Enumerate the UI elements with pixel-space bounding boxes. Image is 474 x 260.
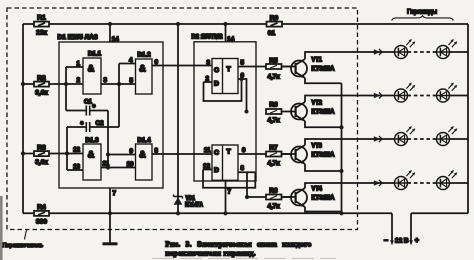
power plus lead xyxy=(409,213,413,245)
caption line 2 xyxy=(166,249,257,257)
svg-text:D1.3: D1.3 xyxy=(85,137,99,144)
LED HL1 row 1 xyxy=(395,39,416,59)
svg-text:3: 3 xyxy=(104,77,108,84)
svg-text:R8: R8 xyxy=(269,187,278,194)
transistor VT3 xyxy=(282,145,308,164)
svg-text:4,7к: 4,7к xyxy=(267,73,280,80)
svg-text:D1.1: D1.1 xyxy=(88,51,102,58)
svg-text:КС147А: КС147А xyxy=(185,203,204,209)
wire row 2 to +bus xyxy=(450,95,469,97)
svg-text:VD1: VD1 xyxy=(186,196,196,202)
label VT4 xyxy=(312,186,323,193)
value 3,6к xyxy=(35,159,48,166)
wire pin8 to R8 xyxy=(247,172,291,197)
label plus xyxy=(415,238,419,245)
wire VT1 collector to garland row 1 xyxy=(305,52,395,59)
junction bus-VT2 emitter xyxy=(340,125,344,129)
svg-text:8: 8 xyxy=(155,148,159,155)
value КТ315А VT4 xyxy=(312,195,335,202)
pin 12 wire xyxy=(73,147,80,154)
wire VT4 emitter to common bus xyxy=(305,207,342,212)
wire dashed row 4 xyxy=(408,182,437,184)
junction bus-pin14 D1 xyxy=(108,22,112,26)
wire row 3 to +bus xyxy=(450,138,469,140)
junction rail-VD1 xyxy=(176,211,180,215)
label R6 xyxy=(269,102,278,109)
junction bus-pin14 D2 xyxy=(223,22,227,26)
capacitor C1 xyxy=(66,106,108,116)
connector plug row 4 xyxy=(374,180,382,186)
wire VT3 emitter to common bus xyxy=(305,164,342,171)
junction pin3 node xyxy=(117,82,121,86)
label R7 xyxy=(269,144,278,151)
svg-text:13к: 13к xyxy=(36,30,47,37)
junction pin2 node xyxy=(64,77,81,86)
svg-text:14: 14 xyxy=(112,36,119,43)
label D1.4 xyxy=(137,137,151,144)
pin 14 of D1 xyxy=(110,24,119,43)
resistor R3 xyxy=(34,151,49,156)
svg-text:R9: R9 xyxy=(270,15,279,22)
wire feedback Q1 to D1 xyxy=(204,79,242,101)
svg-text:КТ315А: КТ315А xyxy=(312,195,335,202)
svg-text:4,7к: 4,7к xyxy=(267,203,280,210)
label D1.1 xyxy=(88,51,102,58)
zener diode VD1 xyxy=(174,24,183,213)
wire row 1 to +bus xyxy=(450,51,469,53)
value 4,7к xyxy=(267,73,280,80)
pin 11 output wire xyxy=(101,161,136,168)
junction R8 corner xyxy=(245,195,249,199)
svg-text:&: & xyxy=(139,64,146,75)
svg-text:4: 4 xyxy=(129,57,133,64)
svg-text:12: 12 xyxy=(203,163,210,170)
svg-text:переключателя гирлянд.: переключателя гирлянд. xyxy=(166,249,257,257)
svg-text:Гирлянды: Гирлянды xyxy=(407,9,437,16)
LED HL2 row 1 xyxy=(437,39,458,59)
svg-text:D1 К155 ЛА3: D1 К155 ЛА3 xyxy=(58,34,99,41)
label D1 К155 ЛА3 xyxy=(58,34,99,41)
svg-text:&: & xyxy=(88,150,95,161)
label R4 xyxy=(37,204,46,211)
wire dashed row 2 xyxy=(408,95,437,97)
resistor R9 xyxy=(267,22,283,27)
wire right +12V bus xyxy=(467,24,469,213)
wire emitter common bus xyxy=(341,83,343,213)
pin 13 wire xyxy=(67,164,83,171)
connector plug row 1 xyxy=(374,49,382,55)
flip-flop D2.1 xyxy=(212,59,238,94)
LED HL4 row 2 xyxy=(437,83,458,103)
svg-text:C2: C2 xyxy=(96,120,104,127)
resistor R5 xyxy=(266,64,282,69)
junction pin6 feedback xyxy=(240,77,244,81)
LED HL3 row 2 xyxy=(395,83,416,103)
pin 9 output wire xyxy=(238,147,291,154)
wire VT1 emitter to common bus xyxy=(305,78,342,83)
wire ground rail xyxy=(23,212,468,214)
pin 5 output wire xyxy=(238,60,291,67)
wire left rail to resistors xyxy=(22,24,24,213)
svg-text:R1: R1 xyxy=(37,15,46,22)
ground xyxy=(103,242,118,245)
svg-text:+: + xyxy=(415,238,419,245)
svg-text:C: C xyxy=(214,67,219,74)
IC D2 box xyxy=(194,42,256,181)
junction rail-R3 xyxy=(21,151,25,155)
wire C2 left to D1.3 inputs xyxy=(66,127,68,170)
svg-text:T: T xyxy=(227,149,232,156)
wire R3 to gate inputs xyxy=(23,153,83,155)
value КТ315А VT1 xyxy=(312,66,335,73)
svg-text:C: C xyxy=(214,150,219,157)
svg-text:Переключатель: Переключатель xyxy=(3,243,44,249)
pin 10 label xyxy=(127,161,134,168)
wire VT2 emitter to common bus xyxy=(305,121,342,127)
svg-text:VT4: VT4 xyxy=(312,186,323,193)
value 4,7к xyxy=(267,203,280,210)
pin 11 label xyxy=(204,147,211,154)
label minus xyxy=(384,238,388,245)
pin 3 output wire xyxy=(101,77,119,84)
LED HL7 row 4 xyxy=(395,170,416,190)
label R2 xyxy=(37,75,46,82)
value 91 xyxy=(268,30,276,37)
LED HL8 row 4 xyxy=(437,170,458,190)
gate D1.3 xyxy=(83,144,101,180)
label D1.3 xyxy=(85,137,99,144)
svg-text:&: & xyxy=(88,64,95,75)
svg-text:R4: R4 xyxy=(37,204,46,211)
junction R3-pins12-13 xyxy=(65,151,69,155)
pin 14 of D2 xyxy=(226,24,235,43)
pin 6 output wire xyxy=(238,73,247,112)
svg-text:КТ315А: КТ315А xyxy=(312,152,335,159)
svg-text:4,7к: 4,7к xyxy=(267,117,280,124)
svg-text:6: 6 xyxy=(155,59,159,66)
label VT1 xyxy=(312,57,323,64)
svg-text:T: T xyxy=(227,66,232,73)
svg-text:2: 2 xyxy=(77,77,81,84)
svg-text:VT1: VT1 xyxy=(312,57,323,64)
svg-text:14: 14 xyxy=(227,36,234,43)
capacitor C2 xyxy=(67,122,119,132)
svg-text:5: 5 xyxy=(130,78,134,85)
value КТ315А VT3 xyxy=(312,152,335,159)
value КС147А xyxy=(185,203,204,209)
svg-text:VT3: VT3 xyxy=(312,143,323,150)
junction pin9 tie xyxy=(106,152,110,156)
wire feedback Q2 to D2 xyxy=(203,170,255,188)
svg-text:11: 11 xyxy=(204,147,211,154)
svg-text:D2 155ТМ2: D2 155ТМ2 xyxy=(192,34,223,41)
power minus lead xyxy=(390,213,394,245)
label D1.2 xyxy=(137,52,151,59)
LED HL6 row 3 xyxy=(437,126,458,146)
svg-text:1: 1 xyxy=(77,61,81,68)
wire VT2 collector to garland row 2 xyxy=(305,96,395,103)
connector plug row 3 xyxy=(374,136,382,142)
wire R2 to gate inputs xyxy=(23,83,83,85)
flip-flop D2.2 xyxy=(212,145,238,180)
junction R6 corner xyxy=(245,110,249,114)
label Переключатель xyxy=(3,243,44,249)
svg-text:330: 330 xyxy=(36,219,47,226)
svg-text:&: & xyxy=(139,150,146,161)
resistor R1 xyxy=(34,22,49,27)
svg-text:КТ315А: КТ315А xyxy=(312,66,335,73)
resistor R7 xyxy=(266,152,282,157)
junction bus-ground rail xyxy=(339,211,343,215)
pin 9 wire xyxy=(108,148,136,155)
dashed enclosure border (switch unit) xyxy=(7,8,358,230)
pin 6 output wire to D2 xyxy=(152,59,212,66)
wire dashed row 1 xyxy=(408,51,437,53)
svg-text:D1.4: D1.4 xyxy=(137,137,151,144)
scan smudge left edge xyxy=(0,196,3,260)
svg-text:7: 7 xyxy=(228,189,232,196)
svg-text:7: 7 xyxy=(113,190,117,197)
value 4,7к xyxy=(267,160,280,167)
svg-text:–: – xyxy=(384,238,388,245)
svg-text:3,6к: 3,6к xyxy=(35,90,48,97)
svg-text:10: 10 xyxy=(127,161,134,168)
svg-text:R6: R6 xyxy=(269,102,278,109)
pin 1 wire xyxy=(66,61,83,68)
svg-text:5: 5 xyxy=(241,60,245,67)
svg-text:C1: C1 xyxy=(84,99,92,106)
svg-text:91: 91 xyxy=(268,30,276,37)
svg-text:D: D xyxy=(214,81,219,88)
label 12 В xyxy=(395,238,409,245)
value 3,6к xyxy=(35,90,48,97)
svg-text:13: 13 xyxy=(73,164,80,171)
label R8 xyxy=(269,187,278,194)
label R3 xyxy=(37,145,46,152)
wire dashed row 3 xyxy=(408,138,437,140)
svg-text:2: 2 xyxy=(206,76,210,83)
value 330 xyxy=(36,219,47,226)
label R5 xyxy=(269,57,278,64)
label C1 xyxy=(84,99,95,112)
value КТ315А VT2 xyxy=(312,109,335,116)
label VT2 xyxy=(312,100,323,107)
wire row 4 to +bus xyxy=(450,182,469,184)
junction rail-pin7 D1 xyxy=(108,211,112,215)
label VD1 xyxy=(186,196,196,202)
pin 7 of D2 xyxy=(226,181,232,213)
resistor R6 xyxy=(266,109,282,114)
IC D1 box xyxy=(59,42,163,188)
resistor R4 xyxy=(34,211,49,216)
svg-text:12: 12 xyxy=(73,147,80,154)
label R1 xyxy=(37,15,46,22)
svg-text:3,6к: 3,6к xyxy=(35,159,48,166)
svg-text:9: 9 xyxy=(242,147,246,154)
resistor R2 xyxy=(34,82,49,87)
pin 8 output wire xyxy=(238,165,255,172)
label VT3 xyxy=(312,143,323,150)
node pins 1-2 tie xyxy=(65,67,67,111)
resistor R8 xyxy=(266,195,282,200)
svg-text:VT2: VT2 xyxy=(312,100,323,107)
junction rail-pin7 D2 xyxy=(223,211,227,215)
junction rail-R2 xyxy=(21,82,25,86)
svg-text:R7: R7 xyxy=(269,144,278,151)
transistor VT2 xyxy=(282,102,308,121)
svg-text:R5: R5 xyxy=(269,57,278,64)
value 4,7к xyxy=(267,117,280,124)
svg-text:3: 3 xyxy=(207,60,211,67)
svg-text:Рис. 3. Электрическая схема: Рис. 3. Электрическая схема каждого xyxy=(166,240,312,248)
pin 2 wire D input xyxy=(204,76,213,83)
wire top supply bus xyxy=(23,23,468,25)
svg-text:12 В: 12 В xyxy=(395,238,409,245)
pin 3 label xyxy=(207,60,211,67)
junction C1-pin11 xyxy=(106,165,110,169)
wire VT3 collector to garland row 3 xyxy=(305,139,395,145)
svg-text:R3: R3 xyxy=(37,145,46,152)
svg-text:КТ315А: КТ315А xyxy=(312,109,335,116)
pin 5 wire xyxy=(119,78,136,85)
transistor VT4 xyxy=(282,188,308,207)
wire C1 right to D1.4 inputs xyxy=(107,111,109,168)
gate D1.2 xyxy=(136,59,153,94)
node pins 4-5 tie xyxy=(118,64,120,128)
junction bus-VD1 xyxy=(176,22,180,26)
caption line 1 xyxy=(166,240,312,248)
scan smudge bottom xyxy=(152,257,336,259)
pin 8 output wire to D2 xyxy=(152,148,212,155)
label C2 xyxy=(81,120,104,129)
pin 4 wire xyxy=(119,57,136,64)
value 13к xyxy=(36,30,47,37)
label R9 xyxy=(270,15,279,22)
label Гирлянды xyxy=(407,9,437,16)
gate D1.1 xyxy=(83,58,101,94)
label D2 155ТМ2 xyxy=(192,34,223,41)
pin 12 wire D input xyxy=(203,163,212,170)
svg-text:4,7к: 4,7к xyxy=(267,160,280,167)
connector plug row 2 xyxy=(374,93,382,99)
pin 7 of D1 to ground xyxy=(110,188,117,243)
LED HL5 row 3 xyxy=(395,126,416,146)
brace garlands xyxy=(392,16,454,21)
svg-text:D: D xyxy=(214,167,219,174)
svg-text:*: * xyxy=(93,105,96,112)
svg-text:R2: R2 xyxy=(37,75,46,82)
svg-text:8: 8 xyxy=(241,165,245,172)
svg-text:*: * xyxy=(81,122,84,129)
junction bus-VT3 emitter xyxy=(340,169,344,173)
wire VT4 collector to garland row 4 xyxy=(305,183,395,188)
svg-text:D1.2: D1.2 xyxy=(137,52,151,59)
leader tick xyxy=(25,230,27,240)
gate D1.4 xyxy=(136,144,153,180)
transistor VT1 xyxy=(282,59,308,78)
svg-text:9: 9 xyxy=(130,148,134,155)
